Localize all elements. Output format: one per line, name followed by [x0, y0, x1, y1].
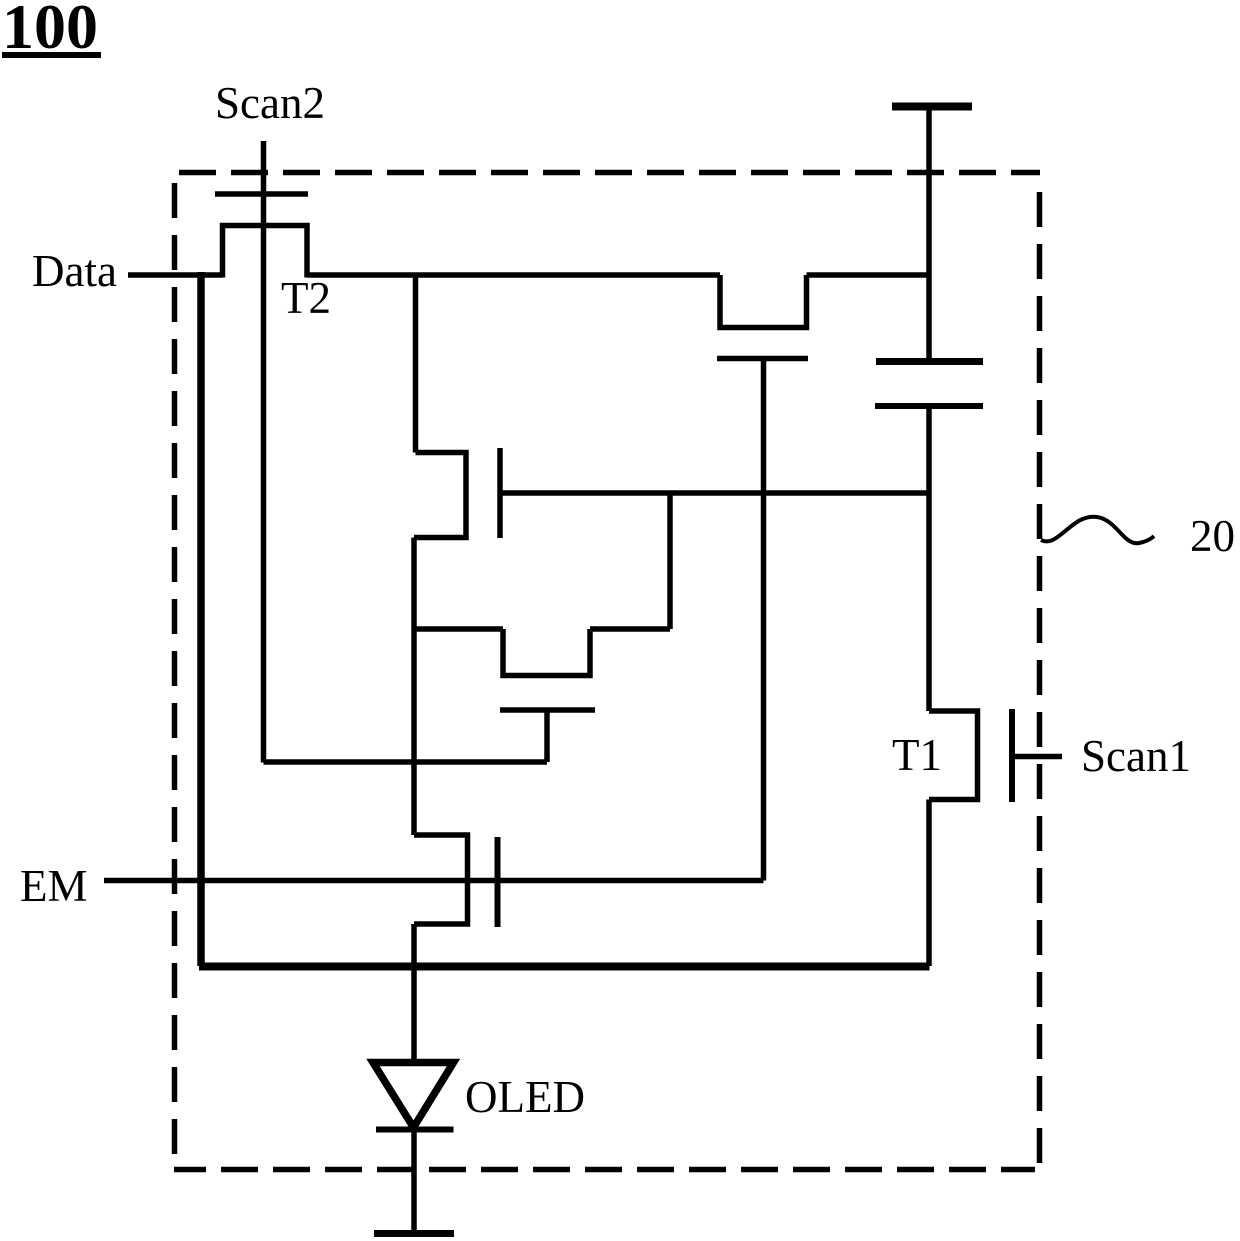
capacitor C1 bottom plate	[875, 403, 983, 409]
svg-text:OLED: OLED	[465, 1072, 585, 1122]
wire: drive transistor down rail	[411, 538, 417, 836]
wire: top node to drive transistor	[413, 275, 419, 453]
wire: left rail (Data node down)	[197, 272, 205, 966]
wire: thick bottom rail	[199, 963, 930, 971]
transistor T1 gate bar	[1009, 709, 1015, 802]
wire: riser to gate node line	[667, 493, 673, 629]
diode OLED cathode bar	[376, 1127, 454, 1133]
figure label 100	[2, 0, 101, 62]
wire: T2 to top transistor	[307, 272, 720, 278]
wire: T1 to bottom rail	[926, 800, 932, 967]
dashed boundary box, bottom edge	[174, 1167, 1035, 1173]
svg-text:EM: EM	[20, 861, 88, 911]
wire: OLED cathode lead	[411, 1130, 417, 1235]
transistor T2 gate bar	[215, 191, 308, 197]
wire: VDD stem	[926, 107, 932, 362]
drive transistor T4 gate bar	[497, 448, 503, 538]
emission transistor T6 gate bar	[495, 837, 501, 927]
wire: capacitor bottom to T1	[926, 406, 932, 711]
svg-text:Data: Data	[32, 246, 117, 296]
transistor T5 channel (EM top transistor)	[720, 275, 807, 328]
dashed boundary box (pixel region 20), top edge	[179, 170, 1040, 176]
transistor T2 channel	[223, 226, 308, 278]
Scan1 lead wire	[1012, 754, 1062, 760]
Scan2 line	[261, 141, 267, 763]
cathode supply bar	[374, 1230, 454, 1237]
Data lead wire	[128, 272, 223, 278]
svg-text:T1: T1	[892, 730, 942, 780]
svg-text:20: 20	[1190, 511, 1235, 561]
wire: T5 to VDD rail	[807, 272, 930, 278]
wire: drive gate node line	[502, 490, 929, 496]
svg-text:T2: T2	[281, 273, 331, 323]
wire: OLED anode lead	[411, 966, 417, 1062]
wire: rail to T3	[414, 626, 503, 632]
wire: T3 to riser	[590, 626, 670, 632]
transistor T3 gate bar	[500, 707, 595, 713]
EM line	[104, 878, 764, 884]
svg-text:Scan2: Scan2	[215, 78, 325, 128]
drive transistor T4 channel	[414, 453, 466, 538]
dashed boundary box, right edge	[1037, 192, 1043, 1165]
dashed boundary box, left edge	[172, 183, 178, 1170]
power supply VDD bar	[892, 103, 972, 111]
reference squiggle to 20	[1041, 517, 1154, 544]
wire: T5 gate to EM line	[761, 359, 767, 881]
diode OLED triangle	[373, 1063, 454, 1128]
transistor T3 channel	[503, 629, 590, 676]
svg-text:Scan1: Scan1	[1081, 731, 1191, 781]
transistor T5 gate bar	[717, 356, 808, 362]
emission transistor T6 channel	[414, 835, 468, 924]
wire: Scan2 to T3 gate	[264, 759, 548, 765]
wire: T3 gate lead	[544, 710, 550, 762]
transistor T1 channel	[929, 711, 978, 800]
capacitor C1 top plate	[876, 358, 983, 365]
wire: T6 to bottom rail	[411, 924, 417, 966]
